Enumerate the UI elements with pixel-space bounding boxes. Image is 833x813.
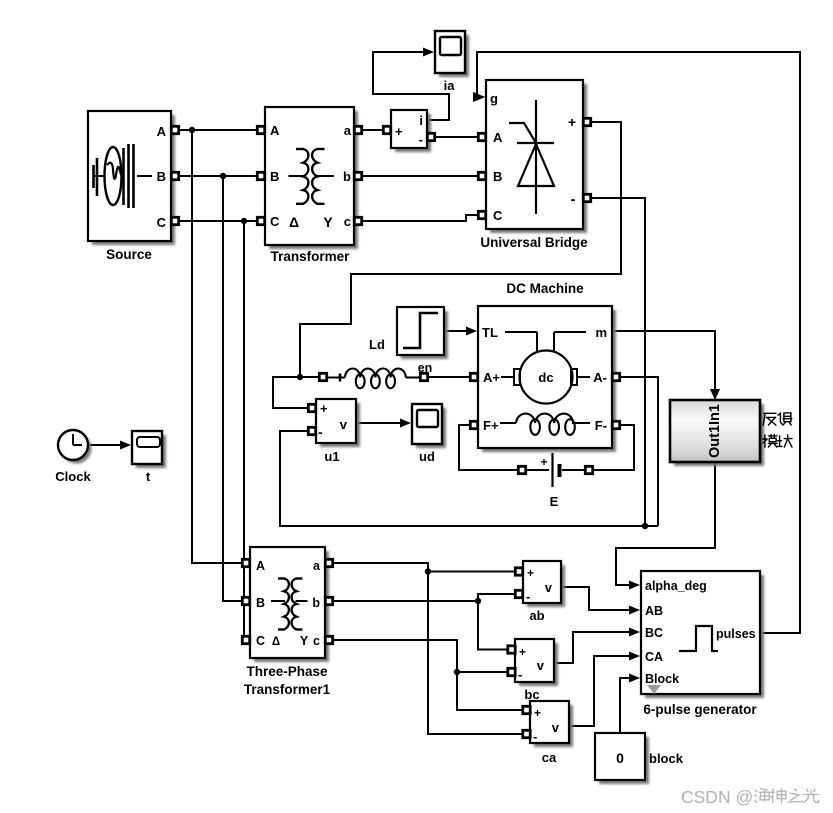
transformer port B [257, 172, 264, 179]
DC machine port F+ [470, 421, 477, 428]
wire Out1In1 output to alpha_deg [616, 462, 715, 585]
svg-text:ud: ud [419, 449, 435, 464]
svg-text:+: + [527, 566, 534, 580]
wire battery E to DC machine F- [590, 425, 634, 470]
ca - port [523, 730, 530, 737]
svg-text:Y: Y [323, 214, 333, 230]
ca + port [523, 706, 530, 713]
step block Ld [401, 311, 448, 359]
voltage measurement bc [519, 643, 558, 686]
transformer block Transformer [269, 111, 358, 249]
svg-text:C: C [270, 214, 280, 229]
svg-text:CSDN @: CSDN @ [681, 787, 753, 807]
svg-text:BC: BC [645, 626, 663, 640]
wire phase B: Source B to Transformer B [179, 175, 257, 177]
svg-text:c: c [344, 214, 351, 229]
svg-text:Clock: Clock [55, 469, 91, 484]
wire c branch to ca + [457, 672, 523, 710]
wire node to u1 + [273, 377, 310, 408]
wire transformer a to current measurement [362, 129, 384, 131]
svg-text:A: A [157, 124, 167, 139]
u1 - port [308, 427, 315, 434]
svg-text:Δ: Δ [272, 636, 280, 648]
svg-text:B: B [270, 169, 279, 184]
current measurement - port [427, 133, 434, 140]
svg-text:v: v [340, 417, 348, 432]
voltage measurement ca [534, 705, 573, 747]
wire ca v to 6-pulse CA [569, 656, 634, 726]
bridge g arrow [473, 92, 485, 102]
svg-text:v: v [545, 580, 553, 595]
wire transformer1 b line to ab - [334, 594, 515, 601]
wire DC machine A- to negative rail [616, 377, 658, 526]
svg-text:+: + [534, 706, 541, 720]
node negative rail [642, 523, 648, 529]
label feedback module chinese [763, 413, 776, 425]
ab + port [515, 568, 522, 575]
battery left port [518, 466, 525, 473]
transformer port c [354, 217, 361, 224]
DC machine port A+ [470, 373, 477, 380]
svg-text:AB: AB [645, 604, 663, 618]
svg-text:F-: F- [595, 418, 607, 433]
wire phase A drop to Three-Phase Transformer1 [192, 130, 242, 563]
6-pulse generator block [645, 575, 764, 698]
svg-text:v: v [537, 658, 545, 673]
svg-text:g: g [490, 91, 498, 106]
transformer1 port C [242, 636, 249, 643]
DC machine block [482, 310, 616, 452]
svg-text:c: c [313, 634, 320, 648]
svg-text:+: + [320, 401, 328, 416]
inductor left port [319, 373, 326, 380]
battery right port [585, 466, 592, 473]
wire smoothing inductor to DC machine A+ [427, 376, 472, 378]
svg-text:A: A [270, 123, 280, 138]
svg-text:b: b [343, 169, 351, 184]
transformer1 winding icon [271, 579, 308, 630]
node b branch [475, 598, 481, 604]
source port A [171, 126, 178, 133]
source port C [171, 217, 178, 224]
three-phase transformer1 block [254, 551, 329, 662]
scope block ud [416, 408, 446, 448]
wire DC machine m to Out1In1 [612, 331, 715, 394]
svg-text:a: a [313, 559, 321, 573]
wire bridge + to armature node [300, 122, 621, 377]
wire bc v to 6-pulse BC [554, 632, 634, 663]
svg-text:m: m [595, 325, 607, 340]
transformer port C [257, 217, 264, 224]
transformer1 port A [242, 559, 249, 566]
display block t [136, 435, 166, 468]
node armature plus [297, 374, 303, 380]
source block Source [92, 115, 175, 245]
svg-text:B: B [157, 169, 166, 184]
svg-text:bc: bc [524, 687, 539, 702]
wire transformer1 a line to ab + [334, 563, 515, 572]
wire phase B drop to Three-Phase Transformer1 [223, 176, 242, 601]
clock block [62, 434, 92, 464]
wire u1 - to negative rail [280, 431, 658, 526]
transformer1 port B [242, 597, 249, 604]
transformer1 port c [325, 636, 332, 643]
pulse icon [679, 626, 718, 651]
bc + port [508, 646, 515, 653]
svg-text:t: t [146, 469, 151, 484]
svg-text:B: B [493, 169, 502, 184]
node a branch [425, 568, 431, 574]
wire Ld step to DC machine TL [444, 330, 471, 332]
svg-text:A-: A- [593, 370, 607, 385]
svg-text:-: - [518, 667, 522, 682]
svg-text:E: E [550, 494, 559, 509]
svg-text:Three-Phase: Three-Phase [246, 664, 328, 679]
series inductor en [327, 369, 421, 389]
svg-text:b: b [312, 596, 320, 610]
svg-text:A: A [493, 130, 503, 145]
current measurement input port [383, 126, 390, 133]
inductor right port [420, 373, 427, 380]
ab - port [515, 590, 522, 597]
source port B [171, 172, 178, 179]
thyristor icon [509, 100, 554, 214]
svg-text:Δ: Δ [289, 214, 299, 230]
svg-text:CA: CA [645, 650, 663, 664]
wire u1 v to scope ud [356, 422, 405, 424]
node c branch [454, 669, 460, 675]
wire current measurement to bridge A [433, 136, 480, 138]
transformer winding icon [289, 149, 335, 204]
svg-text:i: i [419, 113, 423, 128]
wire i signal to scope ia [373, 52, 449, 120]
wire bridge - down to negative rail [589, 198, 645, 526]
svg-text:+: + [519, 645, 526, 659]
subsystem Out1In1 feedback block [674, 404, 764, 466]
svg-text:+: + [568, 114, 576, 130]
svg-text:-: - [571, 191, 576, 208]
wire constant block to 6-pulse Block [620, 678, 634, 733]
svg-text:F+: F+ [483, 418, 499, 433]
svg-text:Transformer: Transformer [271, 249, 351, 264]
svg-text:A: A [256, 559, 265, 573]
wire ab v to 6-pulse AB [561, 587, 634, 610]
wire phase C: Source C to Transformer C [179, 220, 257, 222]
svg-text:+: + [540, 455, 547, 469]
scope block ia [439, 35, 469, 77]
svg-text:v: v [552, 720, 560, 735]
transformer1 port b [325, 597, 332, 604]
svg-text:ia: ia [444, 78, 456, 93]
svg-text:Transformer1: Transformer1 [244, 682, 331, 697]
node B branch [220, 173, 226, 179]
wire transformer1 c line to bc - [334, 640, 508, 672]
universal bridge block [490, 84, 587, 233]
svg-text:A+: A+ [483, 370, 500, 385]
transformer port b [354, 172, 361, 179]
wire pulses feedback to bridge g [477, 52, 800, 633]
svg-text:DC Machine: DC Machine [506, 281, 584, 296]
DC machine port F- [612, 421, 619, 428]
svg-text:-: - [318, 424, 323, 440]
svg-text:6-pulse generator: 6-pulse generator [643, 702, 757, 717]
svg-text:-: - [526, 589, 530, 604]
svg-text:pulses: pulses [716, 627, 756, 641]
bridge port B [478, 172, 485, 179]
svg-text:dc: dc [538, 370, 553, 385]
svg-text:C: C [157, 215, 167, 230]
svg-text:Source: Source [106, 247, 152, 262]
bridge port A [478, 133, 485, 140]
voltage measurement ab [527, 565, 565, 607]
bridge port C [478, 211, 485, 218]
current measurement block i [395, 114, 431, 152]
node A branch [189, 127, 195, 133]
svg-text:ab: ab [529, 608, 544, 623]
transformer port A [257, 126, 264, 133]
svg-text:alpha_deg: alpha_deg [645, 579, 707, 593]
svg-text:Out1In1: Out1In1 [707, 404, 723, 458]
wire DC machine F+ to battery E [459, 425, 522, 470]
bc - port [508, 668, 515, 675]
svg-text:Ld: Ld [369, 337, 385, 352]
svg-text:Y: Y [300, 634, 309, 648]
constant block 0 [599, 737, 649, 784]
bridge port + [583, 118, 590, 125]
wire phase C drop to Three-Phase Transformer1 [244, 221, 250, 640]
wire b branch to bc + [478, 601, 508, 650]
transformer port a [354, 126, 361, 133]
wire transformer b to bridge B [362, 175, 480, 177]
node C branch [241, 218, 247, 224]
voltage measurement u1 [320, 403, 360, 447]
block enable triangle [647, 685, 661, 694]
svg-text:TL: TL [482, 325, 498, 340]
transformer1 port a [325, 559, 332, 566]
svg-text:C: C [493, 208, 503, 223]
svg-text:Block: Block [645, 672, 679, 686]
svg-text:C: C [256, 634, 265, 648]
wire transformer c to bridge C [362, 215, 480, 221]
source icon [93, 144, 152, 208]
svg-text:+: + [395, 124, 403, 139]
svg-text:0: 0 [616, 750, 624, 766]
DC machine icon [500, 332, 590, 435]
svg-text:u1: u1 [324, 449, 339, 464]
svg-text:block: block [649, 751, 684, 766]
svg-text:-: - [533, 729, 537, 744]
svg-text:Universal Bridge: Universal Bridge [480, 235, 588, 250]
battery E [526, 453, 586, 487]
svg-text:B: B [256, 596, 265, 610]
bridge port - [583, 194, 590, 201]
u1 + port [308, 404, 315, 411]
wire Clock to display t [88, 444, 125, 446]
svg-text:-: - [419, 132, 423, 147]
wire a branch to ca - [428, 572, 523, 735]
wire phase A: Source A to Transformer A [179, 129, 257, 131]
svg-text:a: a [344, 123, 352, 138]
svg-text:ca: ca [542, 750, 557, 765]
DC machine port A- [612, 373, 619, 380]
